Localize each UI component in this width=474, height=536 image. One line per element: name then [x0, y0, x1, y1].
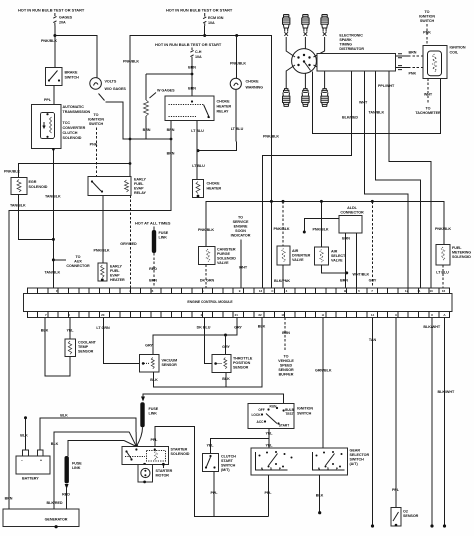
svg-text:HOT IN RUN BULB TEST OR START: HOT IN RUN BULB TEST OR START	[166, 8, 233, 13]
svg-text:TEST: TEST	[285, 412, 293, 416]
svg-text:TACHOMETER: TACHOMETER	[415, 111, 441, 115]
switch gear select A/T	[251, 448, 369, 475]
wire solenoid right drop	[162, 464, 164, 468]
wire main ignition feed bus	[130, 36, 271, 202]
svg-text:METERING: METERING	[452, 251, 471, 255]
svg-text:TO: TO	[76, 255, 81, 259]
svg-text:BRN: BRN	[167, 152, 175, 156]
svg-text:PNK/BLK: PNK/BLK	[273, 227, 289, 231]
svg-text:10A: 10A	[195, 55, 202, 59]
wire LT GRN pin20	[104, 318, 140, 364]
svg-text:VALVE: VALVE	[331, 259, 343, 263]
wire YEL ignition out	[210, 428, 269, 453]
svg-text:W GAGES: W GAGES	[157, 89, 175, 93]
fusible link generator	[65, 456, 69, 483]
node feed-label center	[166, 8, 233, 13]
distributor cap circle	[292, 49, 317, 74]
svg-text:SENSOR: SENSOR	[403, 514, 419, 518]
wire PNK/BLK air select	[320, 201, 322, 247]
svg-text:−: −	[21, 459, 23, 463]
wire ECM IGN fuse down	[204, 26, 206, 36]
svg-text:BRN: BRN	[188, 87, 196, 91]
svg-text:SOLENOID: SOLENOID	[171, 452, 190, 456]
fuse C-H 10A	[190, 48, 202, 60]
svg-text:LT GRN: LT GRN	[96, 326, 110, 330]
svg-text:ALDL: ALDL	[347, 206, 357, 210]
wire ALDL stub	[304, 218, 339, 231]
svg-text:LT BLU: LT BLU	[192, 164, 205, 168]
heater EARLY FUEL EVAP	[98, 263, 125, 282]
wire GRN/BLK pin H	[322, 318, 324, 448]
svg-text:FUEL: FUEL	[110, 269, 120, 273]
svg-text:WHT: WHT	[359, 101, 368, 105]
svg-text:BLK: BLK	[41, 329, 49, 333]
svg-text:STARTER: STARTER	[156, 469, 173, 473]
svg-text:PNK/BLK: PNK/BLK	[312, 228, 328, 232]
svg-text:OFF: OFF	[258, 408, 264, 412]
svg-text:BRN: BRN	[409, 51, 417, 55]
node junction air select BRN	[345, 271, 348, 274]
node ALDL stub terminal	[303, 231, 306, 234]
svg-text:PNK/BLK: PNK/BLK	[435, 227, 451, 231]
wire EGR to TCC rail	[19, 194, 54, 239]
svg-text:VALVE: VALVE	[217, 261, 229, 265]
distributor connector box	[317, 54, 396, 72]
svg-text:SOON: SOON	[235, 229, 246, 233]
wire coil feed loop	[312, 71, 440, 133]
svg-text:SOLENOID: SOLENOID	[63, 136, 82, 140]
svg-text:11: 11	[417, 289, 421, 293]
svg-text:PNK/BLK: PNK/BLK	[123, 60, 139, 64]
svg-text:HOT IN RUN BULB TEST OR START: HOT IN RUN BULB TEST OR START	[155, 42, 222, 47]
svg-text:GRY/RED: GRY/RED	[120, 242, 137, 246]
svg-text:PNK/BLK: PNK/BLK	[4, 170, 20, 174]
svg-text:HOT IN RUN BULB TEST OR START: HOT IN RUN BULB TEST OR START	[18, 8, 85, 13]
label FUSE LINK starter	[149, 407, 159, 416]
wire BLK/PNK to ECM	[282, 265, 284, 288]
svg-text:HEATER: HEATER	[217, 105, 232, 109]
svg-text:O2: O2	[403, 510, 408, 514]
svg-text:18: 18	[281, 313, 285, 317]
svg-text:PNK: PNK	[423, 31, 431, 35]
wire BLK sensors to pin22	[154, 318, 263, 387]
wire plug2 to distributor	[304, 37, 306, 49]
svg-text:VEHICLE: VEHICLE	[278, 359, 294, 363]
svg-text:21: 21	[235, 313, 239, 317]
svg-text:PNK/BLK: PNK/BLK	[41, 39, 57, 43]
valve air diverter	[277, 246, 311, 265]
wire TAN/BLK distributor to ECM	[376, 71, 421, 288]
automatic transmission box	[32, 104, 91, 148]
resistor W GAGES	[144, 74, 176, 139]
node junction TAN/BLK	[52, 238, 55, 241]
svg-text:ENGINE: ENGINE	[234, 225, 248, 229]
node junction AUX	[52, 258, 55, 261]
fuse ECM IGN 10A	[203, 13, 224, 26]
wire PNK/BLK to ECM pin C	[270, 201, 272, 288]
svg-text:AIR: AIR	[292, 249, 299, 253]
svg-text:BLK/WHT: BLK/WHT	[423, 325, 440, 329]
svg-text:BLK/PNK: BLK/PNK	[274, 279, 290, 283]
svg-text:CHOKE: CHOKE	[207, 182, 221, 186]
svg-text:VACUUM: VACUUM	[162, 359, 178, 363]
svg-text:BATTERY: BATTERY	[22, 477, 39, 481]
fuse GAGES 20A	[53, 13, 72, 26]
svg-text:12: 12	[405, 289, 409, 293]
wire GRY dashed to ECM	[371, 201, 373, 288]
svg-text:PNK: PNK	[90, 143, 98, 147]
svg-text:THROTTLE: THROTTLE	[233, 357, 253, 361]
svg-text:SENSOR: SENSOR	[233, 366, 249, 370]
svg-text:SENSOR: SENSOR	[78, 350, 94, 354]
wire volts gauge to BRN net	[99, 94, 105, 101]
svg-text:SOLENOID: SOLENOID	[29, 185, 48, 189]
svg-text:START: START	[279, 424, 289, 428]
svg-text:FUEL: FUEL	[134, 182, 144, 186]
node junction 283	[282, 200, 285, 203]
node junction BRN rail	[129, 138, 132, 141]
label ELECTRONIC SPARK TIMING DISTRIBUTOR	[339, 34, 364, 52]
svg-text:20: 20	[101, 313, 105, 317]
wire choke warning feed	[236, 36, 238, 79]
svg-text:C-H: C-H	[195, 50, 202, 54]
svg-text:TO: TO	[426, 107, 431, 111]
svg-text:IGNITION: IGNITION	[450, 46, 466, 50]
node junction LT BLU	[197, 149, 200, 152]
svg-text:EARLY: EARLY	[134, 178, 146, 182]
svg-text:IGNITION: IGNITION	[297, 407, 313, 411]
wire LT BLU fuel metering to ECM	[442, 265, 444, 288]
svg-text:WHT: WHT	[424, 93, 433, 97]
switch ignition	[248, 403, 313, 428]
arrow into fuse link	[141, 397, 145, 402]
svg-text:SPEED: SPEED	[280, 364, 293, 368]
battery	[16, 450, 50, 480]
wire BRN fuse to relay	[191, 59, 193, 96]
svg-text:TO: TO	[94, 113, 99, 117]
svg-text:TAN/BLK: TAN/BLK	[369, 111, 385, 115]
fusible link starter	[140, 402, 144, 427]
svg-text:WHT/BLK: WHT/BLK	[353, 273, 370, 277]
label TO IGNITION SWITCH	[88, 113, 104, 126]
svg-text:CONVERTER: CONVERTER	[63, 126, 86, 130]
svg-text:SERVICE: SERVICE	[233, 220, 249, 224]
svg-text:HEATER: HEATER	[207, 187, 222, 191]
svg-text:HEATER: HEATER	[110, 278, 125, 282]
brake switch SW1	[46, 68, 80, 86]
wire WHT/BLK ALDL to ECM	[356, 233, 358, 288]
svg-text:IGNITION: IGNITION	[88, 118, 104, 122]
ECM engine control module	[24, 288, 452, 318]
svg-text:SWITCH: SWITCH	[297, 412, 312, 416]
svg-text:PNK/BLK: PNK/BLK	[230, 62, 246, 66]
svg-text:+: +	[40, 459, 42, 463]
node junction ECM IGN	[203, 34, 206, 37]
gauge CHOKE WARNING	[230, 78, 263, 89]
svg-text:LT BLU: LT BLU	[436, 271, 449, 275]
svg-text:PPL: PPL	[264, 491, 272, 495]
svg-text:AUTOMATIC: AUTOMATIC	[63, 105, 85, 109]
node junction 271	[270, 200, 273, 203]
svg-text:PNK/BLK: PNK/BLK	[198, 228, 214, 232]
svg-text:AIR: AIR	[331, 250, 338, 254]
wire BRN generator rail	[9, 121, 171, 510]
svg-text:BRN: BRN	[342, 237, 350, 241]
svg-text:CANISTER: CANISTER	[217, 248, 236, 252]
svg-text:14: 14	[371, 313, 375, 317]
node feed-label C-H	[155, 42, 222, 47]
wire TAN pin14	[372, 318, 374, 526]
relay early fuel evap K2	[88, 177, 147, 196]
svg-text:10A: 10A	[208, 21, 215, 25]
svg-text:BLK: BLK	[20, 434, 28, 438]
svg-text:BLK/WHT: BLK/WHT	[438, 390, 455, 394]
wire PNK/BLK gages to brake switch	[54, 26, 56, 68]
svg-text:PPL: PPL	[210, 491, 218, 495]
spark plug 6 bottom	[321, 85, 328, 106]
pin stub PNK to coil	[396, 66, 430, 76]
node junction gages	[53, 34, 56, 37]
svg-text:MOTOR: MOTOR	[156, 474, 170, 478]
wire BLK/WHT pin A	[444, 318, 446, 526]
wire PPL brake to transmission	[53, 85, 55, 104]
svg-text:LINK: LINK	[159, 236, 168, 240]
svg-text:VOLTS: VOLTS	[105, 80, 117, 84]
svg-text:RUN: RUN	[270, 405, 278, 409]
svg-text:YEL: YEL	[265, 444, 273, 448]
svg-text:GAGES: GAGES	[59, 16, 73, 20]
wire bulb test feed	[143, 394, 284, 409]
svg-text:TEMP: TEMP	[78, 345, 89, 349]
svg-text:W/O GAGES: W/O GAGES	[105, 87, 127, 91]
svg-text:FUSE: FUSE	[72, 462, 82, 466]
svg-text:TAN/BLK: TAN/BLK	[10, 204, 26, 208]
svg-text:BLK: BLK	[316, 494, 324, 498]
arrow fuse link generator	[65, 484, 69, 489]
svg-text:TO: TO	[425, 10, 430, 14]
svg-text:PPL/WHT: PPL/WHT	[378, 84, 395, 88]
wire BLK pin7 loop	[45, 318, 70, 376]
wire PPL/WHT distributor to ECM	[389, 71, 431, 288]
svg-text:BRAKE: BRAKE	[65, 71, 78, 75]
svg-text:LT BLU: LT BLU	[231, 127, 244, 131]
svg-text:U: U	[431, 313, 433, 317]
wire BRN pin18	[284, 318, 286, 350]
wire to W GAGES resistor	[146, 73, 192, 75]
wire plug1 to distributor	[286, 37, 295, 57]
wire WHT coil to tachometer	[427, 78, 429, 104]
wire PPL starter loop	[155, 426, 269, 516]
label TO TACHOMETER	[415, 107, 441, 116]
svg-text:SWITCH: SWITCH	[65, 76, 80, 80]
wire BLK/RED generator to post	[54, 432, 129, 509]
svg-text:20A: 20A	[59, 21, 66, 25]
svg-text:GRY: GRY	[222, 345, 230, 349]
svg-text:F: F	[56, 289, 58, 293]
svg-text:START: START	[221, 459, 234, 463]
svg-text:COIL: COIL	[450, 51, 459, 55]
svg-text:ELECTRONIC: ELECTRONIC	[339, 34, 363, 38]
svg-text:(M/T): (M/T)	[221, 468, 230, 472]
wire DK BLU pin2	[204, 318, 212, 364]
solenoid fuel metering	[436, 244, 471, 264]
wire BLK/RED distributor to ECM	[263, 71, 352, 288]
spark plug 4 bottom	[283, 85, 290, 106]
wire PNK dashed to coil	[426, 24, 428, 46]
label TO IGNITION SWITCH coil	[419, 10, 435, 23]
svg-text:LINK: LINK	[149, 412, 158, 416]
svg-text:22: 22	[258, 313, 262, 317]
svg-text:SENSOR: SENSOR	[162, 363, 178, 367]
svg-text:FUEL: FUEL	[452, 246, 462, 250]
svg-text:CONNECTOR: CONNECTOR	[340, 211, 364, 215]
svg-text:GRY: GRY	[234, 326, 242, 330]
svg-text:TAN/BLK: TAN/BLK	[45, 195, 61, 199]
wire BLK battery negative	[25, 418, 27, 450]
node terminal TAN	[371, 524, 374, 527]
wire stub to AUX connector	[53, 259, 66, 261]
svg-text:RELAY: RELAY	[134, 191, 146, 195]
valve air select	[315, 247, 347, 265]
svg-text:FUSE: FUSE	[159, 231, 169, 235]
svg-text:SPARK: SPARK	[339, 38, 352, 42]
node junction 321	[320, 200, 323, 203]
svg-text:SWITCH: SWITCH	[420, 19, 435, 23]
svg-text:GEAR: GEAR	[350, 449, 361, 453]
svg-text:TIMING: TIMING	[339, 43, 352, 47]
svg-text:RED: RED	[149, 267, 157, 271]
wire fuse link taper to post	[136, 427, 142, 446]
gauge VOLTS W/O GAGES	[90, 78, 127, 91]
wire to volts gauge	[55, 36, 97, 78]
wire ignition bus y202	[206, 201, 444, 246]
svg-text:SWITCH: SWITCH	[89, 122, 104, 126]
svg-text:PNK/BLK: PNK/BLK	[93, 249, 109, 253]
heater CHOKE HEATER	[193, 179, 222, 197]
solenoid canister purge valve	[198, 247, 236, 265]
wire EGR feed	[19, 164, 130, 178]
svg-text:AUX: AUX	[74, 260, 82, 264]
svg-text:IGNITION: IGNITION	[419, 15, 435, 19]
svg-text:EVAP: EVAP	[134, 187, 144, 191]
svg-text:VALVE: VALVE	[292, 258, 304, 262]
svg-text:BLK: BLK	[150, 378, 158, 382]
wire EFE relay to heater	[102, 195, 104, 263]
wire RED to generator	[66, 488, 68, 509]
relay choke heater K1	[165, 96, 231, 121]
node junction 372	[371, 200, 374, 203]
svg-text:H: H	[322, 313, 324, 317]
svg-text:GRY: GRY	[145, 344, 153, 348]
svg-text:BLK/RED: BLK/RED	[342, 116, 358, 120]
spark plug 2	[302, 15, 309, 36]
wire LT BLU relay to choke heater	[196, 121, 198, 180]
svg-text:SELECT: SELECT	[331, 254, 346, 258]
solenoid starter	[122, 447, 190, 465]
svg-text:13: 13	[259, 289, 263, 293]
wire PNK/BLK air diverter	[282, 201, 284, 246]
wire fuse link generator to post	[68, 441, 124, 457]
svg-text:BRN: BRN	[143, 128, 151, 132]
wire RED BRN fuse link to ECM	[153, 253, 155, 288]
node solenoid to motor	[143, 463, 146, 466]
node junction EGR feed	[129, 162, 132, 165]
node terminal A	[443, 524, 446, 527]
svg-text:RELAY: RELAY	[217, 110, 229, 114]
node feed-label left	[18, 8, 85, 13]
wire plug5 to distributor	[304, 73, 306, 85]
svg-text:TAN/BLK: TAN/BLK	[45, 271, 61, 275]
svg-text:DK BLU: DK BLU	[197, 326, 211, 330]
sensor O2	[391, 508, 419, 527]
label TO SERVICE ENGINE SOON INDICATOR	[231, 216, 251, 238]
spark plug 3	[321, 15, 328, 36]
svg-text:TO: TO	[238, 216, 243, 220]
wire TAN/BLK TCC to ECM pin F	[52, 149, 54, 288]
wire DK GRN canister to ECM	[205, 265, 207, 288]
wire GRY to TPS	[225, 335, 227, 355]
wire plug4 to distributor	[286, 65, 295, 85]
svg-text:TAN: TAN	[369, 338, 377, 342]
sensor throttle position	[212, 355, 253, 373]
svg-text:HOT AT ALL TIMES: HOT AT ALL TIMES	[135, 221, 171, 226]
wire plug3 to distributor	[314, 37, 325, 57]
svg-text:DIVERTER: DIVERTER	[292, 254, 311, 258]
wire BLK battery positive to solenoid	[40, 418, 136, 450]
sensor vacuum	[140, 355, 178, 373]
svg-text:TO: TO	[284, 355, 289, 359]
svg-text:TRANSMISSION: TRANSMISSION	[63, 110, 91, 114]
svg-text:SWITCH: SWITCH	[221, 464, 236, 468]
node starter post	[135, 445, 139, 449]
svg-text:SOLENOID: SOLENOID	[452, 255, 471, 259]
svg-text:CHOKE: CHOKE	[217, 100, 231, 104]
svg-text:EVAP: EVAP	[110, 274, 120, 278]
pin stub BRN to coil	[396, 51, 430, 58]
svg-text:CLUTCH: CLUTCH	[221, 455, 236, 459]
node solenoid bottom right	[162, 463, 165, 466]
wire WHT indicator to ECM	[240, 240, 242, 289]
svg-text:WHT: WHT	[239, 266, 248, 270]
fusible link main	[152, 227, 169, 254]
svg-text:TCC: TCC	[63, 121, 71, 125]
svg-text:LT BLU: LT BLU	[191, 129, 204, 133]
ignition coil	[423, 46, 466, 79]
wire BLK gear select	[319, 475, 321, 512]
svg-text:ECM IGN: ECM IGN	[208, 16, 224, 20]
spark plug 1	[283, 15, 290, 36]
solenoid TCC converter clutch	[41, 112, 86, 140]
svg-text:DISTRIBUTOR: DISTRIBUTOR	[339, 47, 364, 51]
svg-text:YEL: YEL	[66, 329, 74, 333]
wire WHT distributor to ECM	[365, 71, 408, 288]
node junction BRN	[191, 73, 194, 76]
svg-text:PPL: PPL	[150, 438, 158, 442]
svg-text:GENERATOR: GENERATOR	[45, 518, 68, 522]
svg-text:COOLANT: COOLANT	[78, 341, 97, 345]
svg-text:YEL: YEL	[265, 432, 273, 436]
node terminal battery negative	[24, 416, 27, 419]
connector ALDL	[339, 206, 364, 233]
wire LT BLU choke warning drop	[198, 89, 236, 150]
svg-text:BLK: BLK	[60, 414, 68, 418]
label FUSE LINK generator	[72, 462, 82, 471]
svg-text:EARLY: EARLY	[110, 265, 122, 269]
svg-text:YEL: YEL	[206, 444, 214, 448]
wire air select to BRN junction	[321, 265, 346, 273]
svg-text:PPL: PPL	[44, 98, 52, 102]
svg-text:PURGE: PURGE	[217, 252, 230, 256]
